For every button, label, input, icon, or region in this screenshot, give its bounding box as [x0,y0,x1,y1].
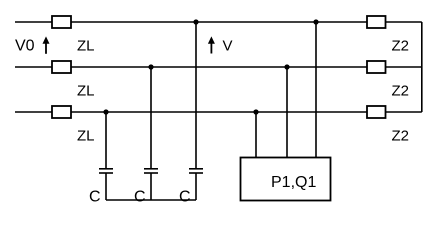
node junction bus3 / C1 feed [103,109,108,114]
wire bus2 right segment [386,66,422,68]
block P1,Q1 [241,158,331,201]
resistor ZL3 [52,106,71,118]
wire P1,Q1 feed from bus3 [255,112,257,158]
resistor ZL2 [52,61,71,73]
capacitor C1 [99,169,113,173]
svg-text:C: C [134,189,146,206]
wire capacitor C1 bottom stem [105,173,107,200]
wire capacitor C3 bottom stem [195,173,197,200]
svg-text:ZL: ZL [77,128,95,145]
wire capacitor C2 feed from bus2 [150,67,152,169]
svg-text:Z2: Z2 [392,128,410,145]
wire capacitor C2 bottom stem [150,173,152,200]
wire capacitor common bottom rail [106,199,196,201]
svg-text:V: V [223,38,233,55]
svg-text:C: C [179,189,191,206]
node junction bus1 / P1,Q1 feed [313,19,318,24]
svg-text:ZL: ZL [77,38,95,55]
svg-text:C: C [89,189,101,206]
node junction bus2 / C2 feed [148,64,153,69]
wire bus1 left stub [15,21,52,23]
node junction bus2 / P1,Q1 feed [284,64,289,69]
wire capacitor C1 feed from bus3 [105,112,107,169]
wire bus3 middle segment [71,111,367,113]
resistor ZL1 [52,16,71,28]
svg-text:P1,Q1: P1,Q1 [271,174,316,191]
svg-text:V0: V0 [15,38,35,55]
svg-text:Z2: Z2 [392,38,410,55]
wire P1,Q1 feed from bus2 [286,67,288,158]
wire bus2 middle segment [71,66,367,68]
resistor Z2 on bus1 [367,16,386,28]
wire bus3 left stub [15,111,52,113]
node junction bus1 / C3 feed [193,19,198,24]
wire bus1 right segment [386,21,422,23]
wire P1,Q1 feed from bus1 [315,22,317,158]
svg-text:ZL: ZL [77,83,95,100]
resistor Z2 on bus2 [367,61,386,73]
svg-text:Z2: Z2 [392,83,410,100]
wire right rail [421,22,423,112]
wire bus1 middle segment [71,21,367,23]
wire capacitor C3 feed from bus1 [195,22,197,169]
node junction bus3 / P1,Q1 feed [253,109,258,114]
source V0 arrow [43,36,50,53]
wire bus2 left stub [15,66,52,68]
resistor Z2 on bus3 [367,106,386,118]
arrow V [208,36,215,53]
capacitor C3 [189,169,203,173]
capacitor C2 [144,169,158,173]
wire bus3 right segment [386,111,422,113]
